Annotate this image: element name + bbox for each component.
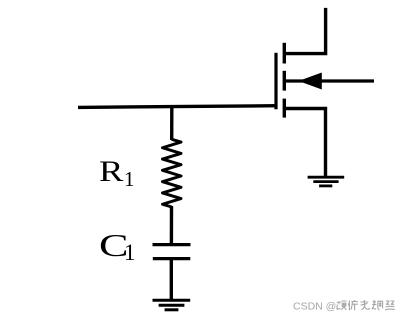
transistor Q1: gate bar bbox=[274, 53, 277, 110]
label C1 bbox=[99, 229, 120, 261]
wire: C1 bottom plate to ground bbox=[170, 259, 173, 300]
arrowhead on body lead (points left into channel) bbox=[300, 73, 321, 89]
transistor Q1: channel segment (drain side) bbox=[283, 43, 286, 64]
capacitor C1 bbox=[153, 245, 191, 259]
resistor R1 bbox=[163, 139, 182, 207]
transistor Q1: channel segment (body) bbox=[283, 71, 286, 91]
ground (left, below C1) bbox=[153, 300, 191, 310]
label R1 bbox=[99, 157, 119, 187]
node A: junction of gate bus and R1 branch bbox=[170, 107, 174, 141]
wire: R1 bottom to C1 top plate bbox=[170, 206, 174, 244]
wire: source down to ground bbox=[285, 109, 326, 177]
transistor Q1: channel segment (source side) bbox=[283, 99, 286, 118]
wire: body/bulk lead to the right bbox=[285, 79, 374, 82]
watermark: CSDN @硬件老钢丝 bbox=[293, 299, 395, 312]
wire: drain up to top rail bbox=[285, 8, 326, 54]
ground (right, at source) bbox=[308, 177, 345, 186]
wire: gate bus from left end to MOSFET gate bbox=[78, 106, 277, 108]
